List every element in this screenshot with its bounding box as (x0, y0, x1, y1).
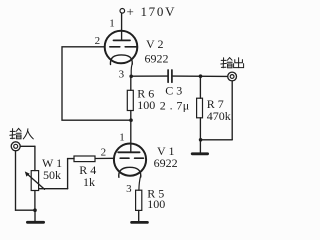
capacitor C3 (167, 70, 169, 82)
svg-text:2 . 7μ: 2 . 7μ (160, 99, 190, 113)
V2 grid dashes (110, 46, 120, 48)
wire R6 top lead (130, 76, 132, 90)
svg-text:+ 170V: + 170V (127, 4, 177, 19)
wire node to V1 plate (130, 120, 132, 152)
wire input terminal down to rail (15, 151, 17, 210)
svg-text:V 2: V 2 (146, 37, 163, 51)
ground (below R7) (199, 140, 201, 153)
resistor R6 (127, 90, 133, 110)
svg-text:1: 1 (109, 18, 115, 30)
tube V2 envelope (105, 31, 138, 64)
output terminal (228, 72, 237, 81)
wire C3 to output terminal (172, 75, 228, 77)
resistor R4 (74, 156, 95, 162)
wire V1 grid lead to R4 (95, 157, 114, 159)
ground (left, below W1) (34, 210, 36, 221)
svg-text:2: 2 (101, 146, 107, 158)
wire W1 top lead to input (34, 146, 36, 170)
node label input (shu ru) (10, 128, 34, 139)
wire node to output return (201, 139, 233, 141)
wire R4 left lead (68, 158, 74, 160)
ground (below R5) (132, 221, 148, 224)
wire R4 to W1 wiper (67, 159, 69, 189)
tube V1 envelope (114, 144, 146, 176)
wire R5 bottom lead (138, 210, 140, 220)
svg-text:470k: 470k (207, 109, 231, 123)
svg-text:1k: 1k (83, 175, 95, 189)
V2 cathode lead (131, 64, 132, 77)
svg-text:6922: 6922 (145, 52, 169, 66)
W1 wiper arrow (27, 173, 45, 189)
node V2 cathode junction (129, 75, 133, 79)
V1 plate bar (118, 151, 139, 153)
wire V2 grid to node below R6 (62, 47, 131, 120)
svg-text:C 3: C 3 (165, 84, 182, 98)
svg-text:100: 100 (147, 197, 165, 211)
node R7 bottom (199, 138, 203, 142)
wire bottom rail (16, 209, 36, 211)
svg-text:2: 2 (95, 35, 101, 47)
wire W1 bottom lead (34, 191, 36, 211)
V2 cathode arc (110, 55, 132, 65)
V1 cathode arc (119, 167, 141, 177)
node rail / W1 bottom (33, 208, 37, 212)
V2 plate bar (114, 39, 131, 41)
svg-text:6922: 6922 (154, 156, 178, 170)
V1 grid dashes (120, 157, 129, 159)
node label output (shu chu) (221, 58, 244, 68)
wire R6 bottom lead (130, 111, 132, 121)
wire supply terminal to V2 plate (121, 13, 123, 40)
node R7 top (199, 74, 203, 78)
potentiometer W1 body (31, 171, 38, 191)
wire R7 top lead (199, 76, 201, 98)
wire R7 bottom lead (199, 118, 201, 140)
supply terminal +170V (120, 9, 125, 14)
node R6 bottom / V1 plate (129, 118, 133, 122)
input terminal (11, 142, 20, 151)
svg-text:1: 1 (119, 132, 125, 144)
svg-text:50k: 50k (43, 168, 61, 182)
svg-text:3: 3 (126, 183, 132, 195)
resistor R5 (136, 190, 142, 210)
wire output terminal down lead (231, 81, 233, 140)
svg-text:100: 100 (137, 98, 155, 112)
wire cathode node to C3 (131, 75, 168, 77)
resistor R7 (197, 98, 203, 118)
svg-text:3: 3 (119, 69, 125, 81)
V1 cathode lead (139, 176, 141, 191)
